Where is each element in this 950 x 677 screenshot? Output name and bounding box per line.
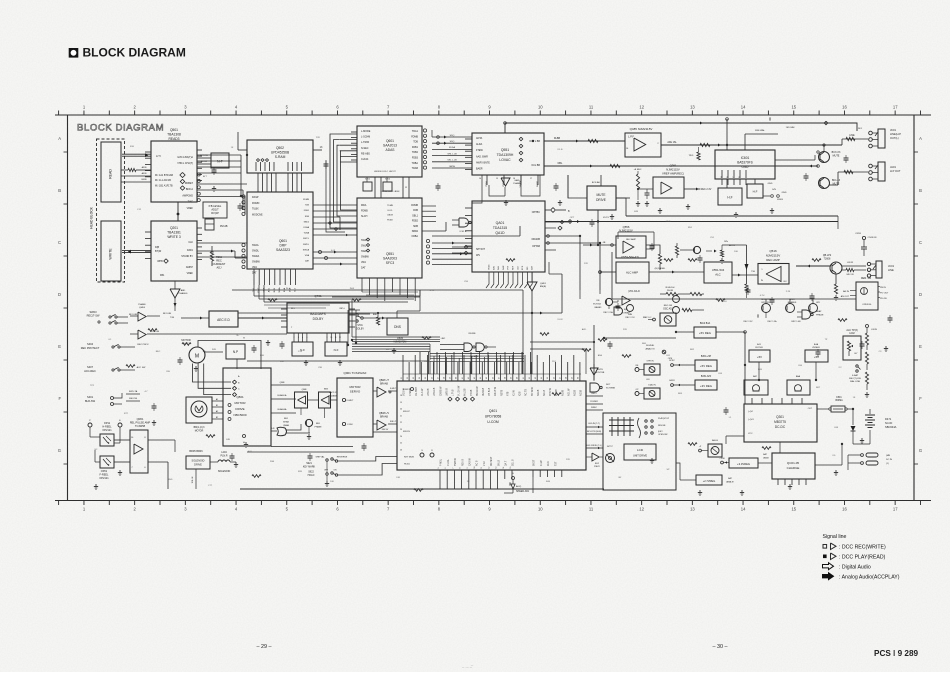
svg-text:BZ? P: BZ? P xyxy=(607,446,613,448)
buffer box mid 2 xyxy=(301,389,338,419)
lcd assembly enclosure xyxy=(603,413,676,490)
wire rec line to line in jack xyxy=(841,262,866,276)
svg-text:50: 50 xyxy=(517,377,519,379)
svg-text:FDMB: FDMB xyxy=(411,204,418,207)
svg-text:32: 32 xyxy=(407,377,409,379)
svg-text:SDQ: SDQ xyxy=(450,135,455,137)
svg-text:AVD: AVD xyxy=(547,461,550,466)
svg-text:REC PRO2: REC PRO2 xyxy=(137,344,149,346)
svg-text:SAA3323: SAA3323 xyxy=(276,248,290,252)
reg +2.7VREG xyxy=(696,475,734,485)
svg-text:22: 22 xyxy=(400,422,402,424)
svg-text:DASD: DASD xyxy=(536,181,539,187)
wire Q501 to N-F xyxy=(197,154,211,164)
svg-text:H.F: H.F xyxy=(753,190,758,194)
svg-text:OP2121: OP2121 xyxy=(102,429,112,432)
svg-text:Q485 NJM2115V: Q485 NJM2115V xyxy=(630,127,653,131)
svg-text:AD HL: AD HL xyxy=(729,244,736,247)
svg-text:SWCL: SWCL xyxy=(303,238,310,240)
svg-text:72608: 72608 xyxy=(824,258,831,261)
svg-text:2B-3R: 2B-3R xyxy=(667,290,674,292)
svg-text:1.5V: 1.5V xyxy=(298,351,303,353)
wire dolby long feed from left xyxy=(147,326,287,334)
svg-text:G: G xyxy=(919,448,922,453)
svg-text:IN-R: IN-R xyxy=(350,288,355,290)
svg-text:Q801: Q801 xyxy=(236,395,244,399)
ucom right pins to lcd xyxy=(586,393,603,468)
svg-text:TILBX: TILBX xyxy=(252,208,259,211)
svg-text:22K: 22K xyxy=(623,329,627,331)
svg-text:SDB: SDB xyxy=(413,225,418,228)
svg-text:UNIT DRIVE: UNIT DRIVE xyxy=(633,455,647,458)
svg-text:BK.W.W: BK.W.W xyxy=(532,387,534,396)
transistor pair bias 3 xyxy=(809,302,821,313)
svg-text:REC 1.5A: REC 1.5A xyxy=(768,320,778,323)
svg-text:1M OHM: 1M OHM xyxy=(786,127,795,129)
svg-text:REC AMP: REC AMP xyxy=(766,258,780,262)
switch S-BAT REC-SW xyxy=(849,365,862,383)
svg-text:13: 13 xyxy=(690,507,695,512)
svg-text:KIB LP: KIB LP xyxy=(403,411,410,413)
ic Q801 MOTOR DRIVE NBC5000 xyxy=(223,368,271,446)
connector S401 BLR-SW xyxy=(85,390,140,406)
svg-text:OPEN SW: OPEN SW xyxy=(658,434,668,436)
frame left border xyxy=(67,115,69,501)
dolby bottom pins to NF xyxy=(294,333,341,342)
wire left border stubs xyxy=(68,318,91,347)
reg +5V REG (a) xyxy=(676,322,746,338)
frame bottom ruler line xyxy=(55,500,931,502)
svg-text:BASB3: BASB3 xyxy=(595,306,603,309)
svg-text:Q601: Q601 xyxy=(279,239,287,243)
svg-text:POWER: POWER xyxy=(590,401,598,403)
ic Q301 MB3775 DC-DC xyxy=(744,404,817,442)
svg-text:11: 11 xyxy=(589,105,594,110)
svg-text:N.P: N.P xyxy=(233,350,238,354)
svg-text:BLAB-BA: BLAB-BA xyxy=(278,408,287,411)
svg-text:UPD78058: UPD78058 xyxy=(485,415,502,419)
cap + rec level parts under 556 xyxy=(622,299,635,319)
svg-text:Q701: Q701 xyxy=(314,294,322,298)
digital audio mark QA01 OPT out xyxy=(545,208,570,213)
block DNS Q605 xyxy=(387,318,408,344)
transistor Q6B (hp out driver) xyxy=(819,178,841,189)
svg-text:SCLB: SCLB xyxy=(544,389,546,396)
svg-text:MOTOR: MOTOR xyxy=(234,401,246,405)
svg-text:Signal line: Signal line xyxy=(823,534,847,540)
svg-text:ANLB.W: ANLB.W xyxy=(494,386,497,396)
svg-text:WPB: WPB xyxy=(157,260,163,263)
svg-text:GND: GND xyxy=(768,183,773,185)
svg-text:SBD2: SBD2 xyxy=(304,221,310,223)
svg-text:IC601: IC601 xyxy=(741,156,750,160)
svg-text:34: 34 xyxy=(419,377,421,379)
svg-text:OSC ADJ: OSC ADJ xyxy=(663,308,673,311)
svg-text:JC01: JC01 xyxy=(888,264,895,268)
svg-text:RSTB: RSTB xyxy=(501,389,503,396)
svg-text:VSS: VSS xyxy=(508,265,510,270)
svg-text:S407: S407 xyxy=(87,365,94,369)
wire DRP to SFC3 mid bus xyxy=(313,205,357,266)
svg-text:VREF AMP(REC): VREF AMP(REC) xyxy=(662,172,684,176)
svg-text:STAND BY: STAND BY xyxy=(181,255,193,258)
svg-text:SBD2: SBD2 xyxy=(412,230,419,233)
svg-text:VDD.W: VDD.W xyxy=(404,387,406,396)
svg-text:13: 13 xyxy=(690,105,695,110)
qa01 bottom pin comb xyxy=(486,272,532,288)
svg-text:TBA1381: TBA1381 xyxy=(167,231,181,235)
svg-text:BY DUB: BY DUB xyxy=(151,331,160,333)
svg-text:B.OSC: B.OSC xyxy=(645,317,652,319)
svg-text:NJM2072M: NJM2072M xyxy=(394,341,407,344)
optocoupler OP11 H-REEL xyxy=(88,420,122,446)
amp triangle above AEC xyxy=(170,281,188,311)
svg-text:REC 2.5A: REC 2.5A xyxy=(603,311,613,314)
svg-text:10K: 10K xyxy=(280,361,284,363)
svg-text:DUDAB: DUDAB xyxy=(482,387,485,396)
svg-text:BBD: BBD xyxy=(373,314,378,316)
svg-text:TDA1315: TDA1315 xyxy=(493,226,507,230)
svg-text:REC-DR: REC-DR xyxy=(664,305,673,307)
svg-text:MC MDT: MC MDT xyxy=(491,456,493,466)
switch S407 ACC-REC xyxy=(84,365,146,373)
jack JC01 LINE IN xyxy=(867,261,894,278)
svg-text:KEY-RTN (W-B): KEY-RTN (W-B) xyxy=(587,431,602,433)
svg-text:AC B: AC B xyxy=(476,460,479,466)
svg-text:REC 2.5V: REC 2.5V xyxy=(744,321,754,323)
svg-text:OPT: OPT xyxy=(570,217,575,219)
svg-text:DPRC: DPRC xyxy=(669,360,675,362)
svg-text:TDBA: TDBA xyxy=(412,162,419,165)
svg-text:B: B xyxy=(58,188,61,193)
wire charge to battery xyxy=(676,444,848,480)
svg-text:AD0B: AD0B xyxy=(561,389,564,396)
amp QR01 REL PULSE AMP xyxy=(114,417,150,473)
svg-text:FDBA: FDBA xyxy=(303,226,309,229)
ic QA01 TDA1315 QA1D xyxy=(472,201,545,272)
svg-text:16: 16 xyxy=(842,105,847,110)
svg-text:F: F xyxy=(58,396,61,401)
diamond marks inside ucom top xyxy=(448,397,475,401)
svg-text:HOLD: HOLD xyxy=(308,474,315,477)
cap CN18 top right xyxy=(855,233,877,256)
svg-text:TDBA: TDBA xyxy=(303,232,309,235)
svg-text:AMALIE: AMALIE xyxy=(726,481,734,484)
svg-text:F-MDL: F-MDL xyxy=(441,458,443,466)
svg-text:SOLENOID: SOLENOID xyxy=(192,460,205,463)
svg-text:SDAB: SDAB xyxy=(537,389,540,396)
svg-text:REVERSE: REVERSE xyxy=(337,457,348,459)
svg-text:DC IN: DC IN xyxy=(886,459,892,461)
scatter resistors xyxy=(126,259,847,492)
page number 30 xyxy=(713,644,728,650)
svg-text:+15W: +15W xyxy=(719,458,724,460)
sfc3 pin circles xyxy=(366,238,429,264)
svg-text:LED DRIVE (T-L): LED DRIVE (T-L) xyxy=(586,445,602,447)
connector PB/PO/RE/AN block xyxy=(841,278,889,310)
svg-text:TBA1308: TBA1308 xyxy=(167,133,181,137)
svg-text:FDBA: FDBA xyxy=(412,235,419,238)
svg-text:QA01: QA01 xyxy=(496,221,505,225)
wire rails to ucom right top xyxy=(530,325,595,380)
wire qa01 outputs extra xyxy=(545,186,568,250)
svg-text:H.F: H.F xyxy=(727,196,732,200)
write head block WRITE xyxy=(101,221,121,281)
svg-text:3: 3 xyxy=(298,337,299,339)
wire dolby area to DNS xyxy=(349,312,387,325)
svg-text:AD3B: AD3B xyxy=(580,389,583,396)
wire sfc3 bottom comb xyxy=(362,278,418,301)
adas right pin circles xyxy=(423,129,426,169)
svg-text:F: F xyxy=(919,396,922,401)
svg-text:SEL B: SEL B xyxy=(513,459,515,466)
svg-text:WS: WS xyxy=(476,254,480,257)
svg-text:LIN.W: LIN.W xyxy=(871,329,877,331)
svg-text:25: 25 xyxy=(400,443,402,445)
reg +3.3VREG xyxy=(719,453,769,468)
svg-text:OPEN SL: OPEN SL xyxy=(862,304,872,306)
svg-text:SW03: SW03 xyxy=(89,310,97,314)
svg-text:NOT: NOT xyxy=(606,384,611,386)
svg-text:WRITE: WRITE xyxy=(109,248,113,260)
svg-text:AFE 16L: AFE 16L xyxy=(667,141,677,144)
wire drive outputs to servo xyxy=(271,382,310,413)
svg-text:Q551: Q551 xyxy=(501,148,509,152)
svg-text:14: 14 xyxy=(503,467,505,469)
svg-text:FWD-TA: FWD-TA xyxy=(129,390,138,393)
svg-text:AFIB: AFIB xyxy=(142,166,147,169)
svg-text:L-SCHM: L-SCHM xyxy=(361,136,370,139)
resistor R211 REC CURRENT ADJ xyxy=(210,246,225,270)
crystal X701 and X702 xyxy=(363,177,392,191)
svg-text:7: 7 xyxy=(452,468,454,469)
svg-text:22K: 22K xyxy=(584,263,588,265)
jack JA01 HP OUT xyxy=(869,162,901,181)
pin stubs charge xyxy=(778,479,806,485)
svg-text:10: 10 xyxy=(474,467,476,469)
svg-text:54: 54 xyxy=(541,377,543,379)
pin stubs LOVAC left xyxy=(465,139,472,170)
svg-text:BKD.A: BKD.A xyxy=(186,188,194,191)
wire mute drive bottom pin xyxy=(597,210,599,246)
inner title BLOCK DIAGRAM (outline) xyxy=(77,123,164,134)
wire rec amp out loop xyxy=(618,232,662,270)
svg-text:FRE WAL: FRE WAL xyxy=(755,129,765,132)
svg-text:OP2121: OP2121 xyxy=(99,477,109,480)
svg-text:B45A +5P: B45A +5P xyxy=(701,355,712,358)
dashed head block enclosure xyxy=(90,139,125,282)
svg-text:REC 2.5V: REC 2.5V xyxy=(625,317,635,319)
svg-text:43: 43 xyxy=(474,377,476,379)
switch S404 REC PROTECT xyxy=(81,342,150,350)
svg-text:AD2B: AD2B xyxy=(574,389,577,396)
svg-text:10K: 10K xyxy=(330,481,334,483)
svg-text:KEY MDB: KEY MDB xyxy=(404,457,414,459)
svg-text:AAD. BWR: AAD. BWR xyxy=(476,155,488,158)
svg-text:+3.3VREG: +3.3VREG xyxy=(737,462,750,466)
svg-text:BLAB-DA: BLAB-DA xyxy=(278,394,288,397)
svg-text:SBC644A: SBC644A xyxy=(885,425,897,429)
svg-text:NJM2115V: NJM2115V xyxy=(766,254,781,258)
svg-text:LBD.IB: LBD.IB xyxy=(428,388,430,396)
svg-text:LOVAC: LOVAC xyxy=(499,158,511,162)
buffer QB08 L/T xyxy=(373,380,397,397)
svg-text:RV(2P: RV(2P xyxy=(211,211,219,215)
transistor motor phase xyxy=(305,419,322,439)
svg-text:M: M xyxy=(195,354,199,360)
svg-text:F801: F801 xyxy=(836,397,842,399)
wire top rail to OSD xyxy=(726,118,795,150)
svg-text:D(B: D(B xyxy=(155,246,160,249)
filter H.F 2 xyxy=(747,179,787,201)
svg-text:D: D xyxy=(919,292,922,297)
svg-text:X1.W: X1.W xyxy=(514,390,516,396)
svg-text:F-MDT: F-MDT xyxy=(390,388,397,390)
svg-text:56: 56 xyxy=(553,377,555,379)
svg-text:FB1: FB1 xyxy=(160,274,165,277)
svg-text:B1: B1 xyxy=(216,405,218,407)
svg-text:SFC3: SFC3 xyxy=(386,261,395,265)
wire LPF output rail to line out xyxy=(661,134,868,160)
svg-text:AWFX BNTE: AWFX BNTE xyxy=(476,161,490,164)
svg-text:: DCC REC(WRITE): : DCC REC(WRITE) xyxy=(839,544,886,550)
svg-text:PHASE: PHASE xyxy=(816,314,824,317)
ic Q601 DRP SAA3323 xyxy=(247,192,313,275)
svg-text:MAD: MAD xyxy=(515,179,520,182)
svg-text:+5V REG: +5V REG xyxy=(700,364,712,368)
svg-text:41: 41 xyxy=(462,377,464,379)
svg-text:9: 9 xyxy=(467,468,469,469)
svg-text:WREC: WREC xyxy=(591,407,598,409)
svg-text:BRC 1.4B: BRC 1.4B xyxy=(792,321,802,323)
svg-text:17: 17 xyxy=(893,507,898,512)
svg-text:OUL BB: OUL BB xyxy=(531,164,540,167)
svg-text:LCD: LCD xyxy=(637,448,644,452)
svg-text:45: 45 xyxy=(486,377,488,379)
svg-text:10: 10 xyxy=(330,337,332,339)
svg-text:16: 16 xyxy=(513,178,515,180)
svg-text:TDB2: TDB2 xyxy=(412,151,419,154)
svg-text:QM01: QM01 xyxy=(540,283,547,285)
wire ucom bottom bus to lower rail xyxy=(240,473,604,489)
wire Q501 right pins to DRP bus xyxy=(197,155,247,214)
svg-text:B4A: B4A xyxy=(814,343,819,346)
svg-text:D471: D471 xyxy=(885,417,892,421)
svg-text:FILTER: FILTER xyxy=(755,347,763,349)
svg-text:DC-DC: DC-DC xyxy=(775,425,786,429)
svg-text:CLK24: CLK24 xyxy=(361,158,369,161)
svg-text:REM. SW: REM. SW xyxy=(861,278,872,280)
svg-text:SHE VAL: SHE VAL xyxy=(315,456,325,459)
svg-text:22K: 22K xyxy=(316,137,320,139)
svg-text:MDA: MDA xyxy=(361,204,367,207)
ic U551-534 ALC xyxy=(704,262,732,283)
svg-text:KIB LP: KIB LP xyxy=(390,421,397,423)
ic Q551 TDA1309H LOVAC xyxy=(472,133,544,175)
nand gate pair PB xyxy=(440,313,496,358)
wire long top rail xyxy=(504,121,857,133)
wire QA01 right outputs xyxy=(545,235,600,313)
svg-text:WR: WR xyxy=(816,302,820,304)
svg-text:SPEED ADJ: SPEED ADJ xyxy=(516,490,530,493)
svg-text:LDCL: LDCL xyxy=(387,210,393,212)
wire Q201 pins to DRP xyxy=(197,243,247,258)
svg-text:Q553-56A-37): Q553-56A-37) xyxy=(621,255,639,259)
wire bus ADAS to LOVAC with labels xyxy=(432,130,472,168)
svg-text:RDBET: RDBET xyxy=(185,182,194,185)
svg-text:9: 9 xyxy=(327,337,328,339)
svg-text:17: 17 xyxy=(893,105,898,110)
read head block READ xyxy=(101,142,121,202)
resistor network mid xyxy=(660,287,704,314)
svg-text:49: 49 xyxy=(511,377,513,379)
svg-text:SBL1: SBL1 xyxy=(412,214,419,217)
svg-text:L.TVB: L.TVB xyxy=(453,389,455,396)
legend DCC PLAY(READ) xyxy=(823,553,886,560)
solenoid coil L204 xyxy=(210,451,238,473)
svg-text:35: 35 xyxy=(425,377,427,379)
nand gate U401 (IEC out) xyxy=(452,218,471,233)
svg-text:V AF: V AF xyxy=(483,460,486,466)
filter block B41 xyxy=(749,344,770,380)
transistor pair bias 1 xyxy=(758,299,772,318)
svg-text:REC AMP: REC AMP xyxy=(626,238,636,241)
transistor pair bias 2 xyxy=(786,299,797,313)
svg-text:DRIVE: DRIVE xyxy=(194,464,202,467)
svg-text:AN IN: AN IN xyxy=(843,290,849,293)
svg-text:+3V REG: +3V REG xyxy=(700,384,712,388)
svg-text:P-ADL: P-ADL xyxy=(447,458,450,466)
svg-text:22P: 22P xyxy=(386,349,390,351)
svg-text:SCTWBB: SCTWBB xyxy=(606,388,616,390)
svg-text:2SB: 2SB xyxy=(270,461,275,463)
switch S921 KEY MARK xyxy=(303,456,397,469)
ucom bottom pin labels xyxy=(441,456,558,466)
svg-text:MIC.IN: MIC.IN xyxy=(847,274,854,276)
wire bias rail xyxy=(612,252,856,323)
tiny pin text SFC3 mid xyxy=(387,205,393,221)
svg-text:BLOCK DIAGRAM: BLOCK DIAGRAM xyxy=(77,123,164,134)
optocoupler OP01 F-REEL xyxy=(95,450,114,480)
svg-text:G: G xyxy=(58,448,61,453)
wire rel amp outputs xyxy=(148,440,175,489)
svg-text:5: 5 xyxy=(306,337,307,339)
svg-text:REV B: REV B xyxy=(462,459,464,466)
svg-text:VRA: VRA xyxy=(252,266,257,269)
svg-text:U-COM: U-COM xyxy=(487,420,499,424)
wire ADAS-SFC3 verticals xyxy=(375,177,409,198)
svg-text:CHARGE: CHARGE xyxy=(787,466,800,470)
svg-text:SOLENOID: SOLENOID xyxy=(218,470,231,473)
svg-text:58: 58 xyxy=(566,377,568,379)
svg-text:23: 23 xyxy=(400,429,402,431)
svg-text:M.I 1A1 BTF1AB: M.I 1A1 BTF1AB xyxy=(155,174,173,177)
svg-text:RGB-DH: RGB-DH xyxy=(666,287,675,289)
svg-text:11: 11 xyxy=(481,467,483,469)
svg-text:B2: B2 xyxy=(216,417,218,419)
svg-text:59: 59 xyxy=(572,377,574,379)
svg-text:GND: GND xyxy=(782,192,787,194)
wire QA01 DPTBC to right xyxy=(545,210,562,230)
svg-text:21: 21 xyxy=(400,415,402,417)
digital-audio marks on Q501 outputs xyxy=(180,172,200,201)
svg-text:REL PULSE AMP: REL PULSE AMP xyxy=(130,421,151,425)
svg-text:TDA1: TDA1 xyxy=(412,130,419,133)
svg-text:SOL.IN: SOL.IN xyxy=(192,476,194,483)
svg-text:REST: REST xyxy=(591,393,597,395)
wire rails under drive to right xyxy=(247,440,355,452)
svg-text:15: 15 xyxy=(496,178,498,180)
